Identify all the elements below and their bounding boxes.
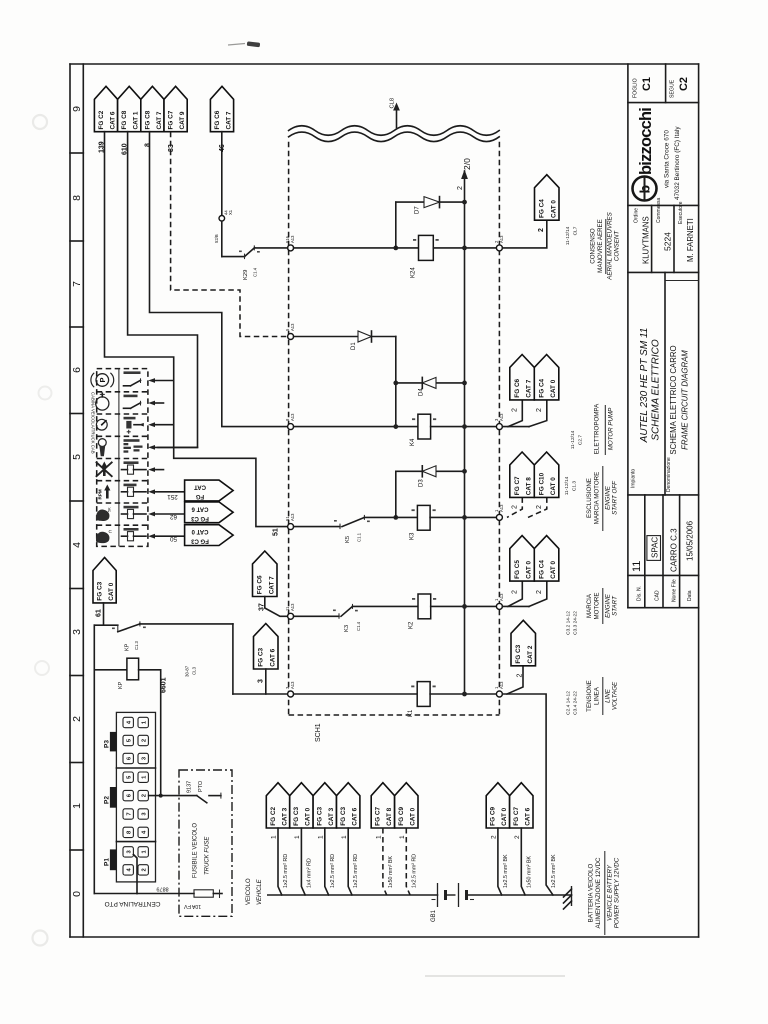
svg-text:CAT 6: CAT 6	[352, 807, 359, 825]
svg-text:7: 7	[71, 281, 83, 287]
svg-text:TRUCK FUSE: TRUCK FUSE	[205, 836, 211, 875]
row5 to battery wire	[502, 694, 553, 895]
svg-text:K24: K24	[411, 267, 417, 278]
svg-text:ENGINE: ENGINE	[605, 593, 612, 618]
diode D7 branch	[395, 202, 397, 248]
divider impianto/denominazione	[664, 272, 666, 495]
flag FG C6 CAT 7 wire 46	[210, 86, 233, 131]
svg-text:CAT 0: CAT 0	[550, 200, 557, 218]
reversed flag FG CAT (251)	[185, 480, 234, 501]
icon parking brake	[96, 374, 109, 387]
svg-text:K1: K1	[408, 709, 414, 717]
centralina left rail	[93, 625, 95, 893]
svg-text:CAT 7: CAT 7	[268, 576, 275, 594]
connector P1 pin 3	[123, 847, 133, 857]
truck fuse dash-dot box	[179, 770, 232, 916]
svg-text:ESCLUSIONE: ESCLUSIONE	[586, 478, 593, 518]
svg-text:CAT 0: CAT 0	[550, 477, 557, 495]
cab cell7 device	[122, 513, 128, 515]
cab cell3 device	[126, 421, 131, 429]
grid tick 1	[70, 152, 83, 154]
svg-text:K3: K3	[410, 532, 416, 540]
row5 flag tail	[507, 666, 523, 694]
svg-text:A13: A13	[290, 413, 295, 421]
svg-text:2: 2	[141, 794, 147, 797]
row3 terminal 1/A13	[496, 514, 502, 520]
svg-text:6601: 6601	[161, 677, 168, 693]
cab cell2 wire stub	[148, 401, 155, 406]
wire 139	[105, 132, 288, 527]
connector P1 bar	[110, 849, 117, 870]
flag FG C5 CAT 0 row4	[510, 536, 535, 582]
svg-text:K4: K4	[410, 438, 416, 446]
cab cell1 label bar	[124, 371, 141, 374]
svg-text:CENTRALINA PTO: CENTRALINA PTO	[105, 900, 161, 907]
connector P3 pin 5	[123, 735, 133, 745]
svg-text:K2: K2	[409, 621, 415, 629]
svg-text:CAT 3: CAT 3	[281, 807, 288, 825]
svg-text:C1: C1	[641, 77, 653, 91]
cab cell3 wire	[148, 422, 155, 427]
battery bus left	[268, 894, 438, 896]
svg-text:MARCIA MOTORE: MARCIA MOTORE	[594, 472, 601, 524]
relay coil K3	[417, 505, 430, 530]
svg-text:VEICOLO: VEICOLO	[246, 878, 252, 905]
drawing frame right border	[698, 64, 700, 937]
svg-text:FG C4: FG C4	[538, 560, 545, 579]
cab cell8 wire to flag 50	[148, 534, 155, 539]
svg-text:Data: Data	[687, 590, 693, 601]
D1 row terminal 5/A13	[288, 334, 294, 340]
svg-text:2/0: 2/0	[462, 158, 472, 170]
svg-text:CAT 6: CAT 6	[109, 111, 116, 129]
svg-text:via Santa Croce 670: via Santa Croce 670	[664, 130, 671, 188]
svg-text:CAT: CAT	[194, 484, 206, 490]
svg-text:1x2.5 mm² BK: 1x2.5 mm² BK	[503, 854, 509, 888]
battery GB1	[437, 883, 439, 907]
svg-text:FG C3: FG C3	[191, 538, 209, 544]
connector P1 pin 4	[123, 865, 133, 875]
svg-text:P: P	[98, 377, 107, 382]
wire 8	[150, 132, 288, 427]
svg-text:FG C7: FG C7	[514, 476, 521, 495]
row2 terminal 8/A13	[288, 424, 294, 430]
main positive rail 2/0	[464, 171, 466, 694]
contact K5	[342, 517, 364, 526]
svg-text:A13: A13	[290, 513, 295, 521]
connector P3 pin 3	[138, 753, 148, 763]
svg-text:1: 1	[399, 835, 406, 839]
wire P2 pin2 to PTO switch	[149, 795, 197, 797]
flag FG C7 CAT 9	[164, 86, 187, 131]
svg-text:Denominazione: Denominazione	[666, 457, 672, 492]
contact pin marks K29	[239, 251, 242, 253]
connector P2 pin 1	[138, 772, 148, 782]
svg-text:CAT 7: CAT 7	[526, 379, 533, 397]
row1 terminal 516/A13	[288, 245, 294, 251]
cab cell2 label bar	[124, 395, 138, 398]
svg-text:1: 1	[376, 835, 383, 839]
title block divider impianto row	[628, 494, 699, 496]
row4 terminal 11/A13	[288, 613, 294, 619]
svg-text:FG: FG	[196, 493, 205, 499]
flag FG C6 CAT 7 row2	[510, 355, 535, 400]
connector P3 pin 2	[138, 735, 148, 745]
cab cell6 wire to flag 251	[148, 489, 155, 494]
cab cell8 label bar	[124, 528, 139, 531]
junction dots D4	[393, 381, 398, 386]
flag FG C8 CAT 1	[118, 86, 141, 131]
grid tick 2	[70, 240, 83, 242]
svg-text:2: 2	[512, 590, 519, 594]
svg-text:Commessa: Commessa	[656, 197, 662, 223]
svg-text:1x2.5 mm² RD: 1x2.5 mm² RD	[283, 854, 289, 888]
scan smudge 4	[33, 931, 48, 946]
svg-text:3: 3	[258, 679, 265, 683]
scan artifact faint line	[228, 44, 245, 46]
svg-text:C1.4: C1.4	[253, 267, 258, 277]
svg-text:KP: KP	[118, 681, 124, 689]
cab cell2 switch	[124, 407, 131, 409]
drawing frame top border	[70, 63, 699, 65]
svg-text:FG C3: FG C3	[191, 515, 209, 521]
scan smudge 2	[39, 387, 52, 400]
row4 flag tails	[502, 605, 529, 607]
svg-text:11-12/14: 11-12/14	[564, 476, 570, 495]
svg-text:FG C3: FG C3	[97, 581, 104, 600]
svg-text:POWER SUPPLY 12VDC: POWER SUPPLY 12VDC	[614, 857, 621, 928]
relay coil K4	[418, 414, 431, 439]
svg-text:A13: A13	[499, 235, 504, 243]
svg-text:FG C7: FG C7	[513, 807, 520, 826]
cab cell1 wire	[148, 378, 155, 383]
flag FG C3 CAT 6 wire 3	[254, 624, 279, 670]
svg-text:FG C7: FG C7	[168, 110, 175, 129]
wire 83 dashed	[171, 132, 288, 337]
svg-text:CL8: CL8	[390, 98, 396, 109]
svg-text:5224: 5224	[663, 232, 673, 251]
KP coil right pin wire 6601	[139, 669, 161, 671]
svg-text:FG C3: FG C3	[258, 648, 265, 667]
svg-text:Ordine: Ordine	[634, 208, 640, 223]
svg-text:11: 11	[631, 561, 643, 572]
divider nomefile/data	[679, 495, 681, 608]
svg-text:FRAME CIRCUIT DIAGRAM: FRAME CIRCUIT DIAGRAM	[681, 350, 690, 450]
svg-text:FG C3: FG C3	[293, 807, 300, 826]
connector P2 pin 6	[123, 790, 133, 800]
svg-text:FG C8: FG C8	[144, 110, 151, 129]
svg-text:P1: P1	[104, 858, 111, 866]
title block bottom border	[628, 607, 699, 609]
svg-text:MOTORE: MOTORE	[594, 592, 601, 619]
row5 bus right	[430, 693, 496, 695]
svg-text:FG C4: FG C4	[538, 378, 545, 397]
svg-text:1: 1	[318, 835, 325, 839]
divider disn/cad	[644, 495, 646, 608]
svg-text:SEGUE: SEGUE	[670, 79, 676, 98]
svg-text:CAT 0: CAT 0	[305, 807, 312, 825]
flag FG C3 CAT 2 row5	[511, 620, 536, 666]
icon seat 2	[96, 532, 110, 543]
svg-text:CAT 0: CAT 0	[501, 807, 508, 825]
svg-text:C1.3: C1.3	[572, 481, 578, 491]
svg-text:P3: P3	[104, 740, 111, 748]
svg-text:KP: KP	[125, 643, 131, 651]
svg-text:FG C4: FG C4	[539, 199, 546, 218]
junction dot rail D7	[462, 200, 467, 205]
row2 flag tails	[502, 426, 529, 428]
svg-text:CAT 7: CAT 7	[156, 111, 163, 129]
esecutore sub line	[666, 280, 699, 282]
cab cell1 switch	[124, 385, 131, 387]
relay coil K2	[418, 594, 431, 619]
grid tick 6	[70, 588, 83, 590]
cab cell dividers	[97, 391, 148, 393]
wire 46 lower	[221, 221, 223, 256]
svg-text:AERIAL MANOEUVRES: AERIAL MANOEUVRES	[607, 211, 614, 280]
contact K29	[245, 248, 255, 257]
svg-text:C2.4 14-12: C2.4 14-12	[566, 691, 572, 715]
contact K3 row4	[341, 606, 353, 616]
cab cell5 device	[122, 469, 128, 471]
ground symbol	[571, 886, 573, 906]
relay coil KP	[127, 658, 139, 680]
row1 bus right	[433, 247, 496, 249]
reversed flag FG C3 CAT 6 (62)	[185, 502, 234, 523]
row3 flag tails dashed	[507, 497, 522, 517]
svg-text:FG C3: FG C3	[317, 807, 324, 826]
svg-text:C3.2 14-12: C3.2 14-12	[566, 611, 572, 635]
svg-text:RPM: RPM	[98, 489, 103, 499]
svg-text:CAT 1: CAT 1	[133, 111, 140, 129]
row2 bus right	[431, 426, 497, 428]
svg-text:VOLTAGE: VOLTAGE	[612, 681, 619, 710]
svg-text:6: 6	[71, 367, 83, 373]
SCH1 dashed box bottom edge	[289, 714, 500, 716]
svg-text:FG C5: FG C5	[514, 560, 521, 579]
svg-text:C2.7: C2.7	[578, 435, 584, 445]
icon seat 1	[96, 510, 110, 521]
coil pin marks K4	[412, 418, 415, 420]
row2 bus	[294, 426, 418, 428]
svg-text:1: 1	[271, 835, 278, 839]
divider ordine/commessa	[651, 205, 653, 272]
cable arrow CL8	[396, 109, 398, 128]
D1 branch wire	[294, 336, 396, 338]
row1 bus left	[255, 247, 288, 249]
svg-text:3: 3	[71, 629, 83, 635]
flag FG C7 CAT 6 right	[510, 783, 533, 828]
row4 bus mid	[353, 605, 419, 607]
svg-text:A13: A13	[499, 593, 504, 601]
connector P3 bar	[110, 732, 117, 752]
contact KP	[117, 625, 119, 632]
svg-text:C2: C2	[678, 77, 690, 91]
svg-text:K29: K29	[243, 270, 249, 280]
flag FG C10 CAT 0 row3	[534, 452, 559, 497]
svg-text:2: 2	[536, 505, 543, 509]
svg-text:2: 2	[512, 505, 519, 509]
title block divider foglio/segue	[665, 64, 667, 103]
svg-text:9137: 9137	[187, 781, 193, 793]
svg-text:CAT 6: CAT 6	[269, 648, 276, 666]
svg-text:0: 0	[71, 891, 83, 897]
svg-text:FG C7: FG C7	[375, 807, 382, 826]
title block left border	[627, 64, 629, 608]
grid tick 3	[70, 326, 83, 328]
battery bus right	[467, 894, 572, 896]
svg-text:D1: D1	[351, 342, 357, 350]
svg-text:CABINA VEICOLA/TRUCK CAB: CABINA VEICOLA/TRUCK CAB	[90, 392, 95, 454]
svg-text:FG C10: FG C10	[538, 472, 545, 495]
icon lamp switch	[96, 397, 109, 410]
svg-text:CAT 8: CAT 8	[526, 477, 533, 495]
flag FG C9 CAT 0	[395, 783, 418, 828]
svg-text:ENGINE: ENGINE	[605, 485, 612, 510]
svg-text:7: 7	[126, 812, 132, 815]
contact pin marks K5	[334, 520, 337, 522]
svg-text:FUSIBILE VEICOLO: FUSIBILE VEICOLO	[193, 823, 199, 878]
drawing frame bottom border	[70, 936, 699, 938]
row2 terminal 3/A13	[496, 424, 502, 430]
svg-text:SCHEMA ELETTRICO CARRO: SCHEMA ELETTRICO CARRO	[669, 345, 678, 454]
svg-text:1x2.5 mm² RD: 1x2.5 mm² RD	[411, 854, 417, 888]
connector X1 pin 44	[219, 216, 225, 222]
cab cell4 label bar	[124, 439, 140, 442]
wire down to row5	[232, 624, 234, 694]
coil pin marks K3	[412, 509, 415, 511]
svg-text:CAT 0: CAT 0	[526, 560, 533, 578]
svg-text:D4: D4	[419, 388, 425, 396]
wire P1 pin3 to fuse 8879	[133, 855, 137, 894]
svg-text:A13: A13	[290, 603, 295, 611]
svg-text:X1: X1	[228, 209, 233, 215]
svg-text:CAT 6: CAT 6	[525, 807, 532, 825]
divider cad/nomefile	[662, 495, 664, 608]
centralina bottom wire	[94, 893, 137, 895]
grid tick 5	[70, 500, 83, 502]
svg-text:VEHICLE BATTERY: VEHICLE BATTERY	[607, 864, 614, 921]
relay coil K24	[419, 235, 434, 260]
svg-text:SCH1: SCH1	[315, 723, 322, 742]
svg-text:2: 2	[538, 228, 545, 232]
svg-text:MOTOR PUMP: MOTOR PUMP	[608, 407, 615, 450]
bizzocchi logo circle	[633, 177, 657, 201]
bottom section labels divider	[628, 574, 699, 576]
scan smudge 1	[33, 115, 47, 129]
svg-text:ALIMENTAZIONE 12VDC: ALIMENTAZIONE 12VDC	[595, 857, 602, 929]
PTO switch blade	[197, 796, 207, 803]
svg-text:AUTEL 230 HE PT SM 11: AUTEL 230 HE PT SM 11	[639, 328, 650, 444]
flag FG C3 CAT 0	[290, 783, 313, 828]
svg-text:CL7: CL7	[573, 226, 579, 235]
reversed flag FG C3 CAT 0 (50)	[185, 525, 234, 546]
wire 3 horizontal	[233, 693, 288, 695]
bizzocchi logo stem	[644, 177, 646, 201]
svg-text:Dis. N.: Dis. N.	[637, 586, 643, 601]
diode D4	[422, 377, 436, 388]
connector P1 pin 2	[138, 865, 148, 875]
svg-text:START OFF: START OFF	[612, 480, 619, 515]
svg-text:8: 8	[71, 195, 83, 201]
diode D3 branch	[395, 471, 397, 517]
row3 bus mid	[364, 516, 417, 518]
svg-text:30-87: 30-87	[185, 665, 190, 677]
flag FG C4 CAT 0 row2	[534, 355, 559, 400]
svg-text:START: START	[612, 595, 619, 616]
row5 bus	[294, 693, 418, 695]
connector P3 pin 6	[123, 753, 133, 763]
flag FG C7 CAT 8	[371, 783, 394, 828]
svg-text:2: 2	[517, 674, 524, 678]
svg-text:11-12/14: 11-12/14	[565, 226, 571, 245]
row4 bus right	[431, 605, 497, 607]
svg-text:MANOVRE AEREE: MANOVRE AEREE	[597, 219, 604, 273]
coil pin marks K1	[411, 686, 414, 688]
svg-text:FG C8: FG C8	[121, 110, 128, 129]
svg-text:2: 2	[141, 739, 147, 742]
relay coil K1	[417, 682, 430, 707]
drawing frame left inner border (grid band)	[82, 64, 84, 937]
row3 bus right	[430, 516, 496, 518]
svg-text:A13: A13	[290, 323, 295, 331]
svg-text:A13: A13	[499, 681, 504, 689]
svg-text:8879: 8879	[156, 886, 168, 892]
spac box	[647, 536, 661, 561]
svg-text:C1.1: C1.1	[357, 532, 362, 542]
svg-text:47032 Bertinoro (FC) Italy: 47032 Bertinoro (FC) Italy	[674, 126, 681, 200]
flag FG C9 CAT 0 right	[486, 783, 509, 828]
svg-text:SPAC: SPAC	[651, 537, 660, 558]
connector P2 pin 4	[138, 827, 148, 837]
diode D3	[422, 466, 436, 477]
svg-text:CAD: CAD	[655, 590, 661, 601]
svg-text:10A: 10A	[191, 903, 201, 909]
cab internal divider	[118, 369, 120, 547]
cab cell4 wire	[148, 445, 155, 450]
svg-text:CAT 2: CAT 2	[527, 645, 534, 663]
svg-text:8: 8	[145, 143, 152, 147]
title block divider foglio row	[628, 102, 699, 104]
flag FG C2 CAT 6	[94, 86, 117, 131]
connector P2 pin 5	[123, 772, 133, 782]
svg-text:P2: P2	[104, 796, 111, 804]
connector P3 pin 1	[138, 717, 148, 727]
cab cell7 wire to flag 62	[148, 512, 155, 517]
truck cab dashed box	[97, 369, 148, 547]
svg-text:FG C3: FG C3	[340, 807, 347, 826]
icon key	[98, 439, 106, 447]
row4 bus left	[294, 615, 339, 617]
svg-text:1x50 mm² BK: 1x50 mm² BK	[526, 855, 532, 888]
svg-text:VEHICLE: VEHICLE	[257, 878, 263, 905]
wire 610	[128, 132, 198, 448]
grid tick 7	[70, 675, 83, 677]
cab cell7 label bar	[124, 506, 139, 509]
wire 61	[103, 603, 105, 625]
wire 46	[221, 132, 223, 216]
contact pin marks KP	[112, 628, 115, 630]
svg-text:CAT 7: CAT 7	[225, 111, 232, 129]
row3 bus left	[294, 526, 340, 528]
flag FG C3 CAT 6	[337, 783, 360, 828]
svg-text:50: 50	[170, 535, 178, 542]
wire 37	[265, 597, 288, 617]
svg-text:MARCIA: MARCIA	[586, 593, 593, 618]
svg-text:A13: A13	[290, 235, 295, 243]
wire 3 tail	[265, 669, 267, 694]
svg-text:M. FARNETI: M. FARNETI	[686, 218, 695, 262]
